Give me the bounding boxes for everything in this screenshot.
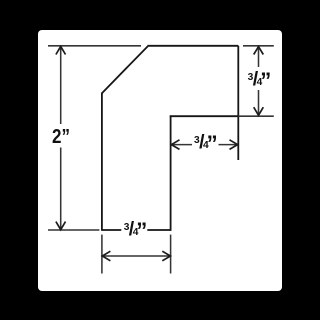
- middle 3/4 dimension arrowhead left: [171, 140, 179, 150]
- middle 3/4 dimension line right segment: [219, 144, 238, 146]
- profile right edge: [237, 46, 239, 160]
- middle 3/4 dimension line left segment: [172, 144, 192, 146]
- middle 3/4 dimension arrowhead right: [230, 140, 238, 150]
- extension line below inner bottom corner: [170, 235, 172, 274]
- profile bottom edge left part: [102, 229, 121, 231]
- profile inner horizontal edge: [170, 115, 239, 117]
- 2 inch dimension arrowhead up: [56, 46, 66, 54]
- white drawing page: [38, 30, 282, 291]
- 2 inch dimension line lower segment: [60, 148, 62, 230]
- extension line right of inner horizontal edge: [238, 115, 273, 117]
- extension line top-right (for right 3/4 inch dimension): [243, 45, 274, 47]
- right 3/4 dimension line lower segment: [258, 90, 260, 115]
- right 3/4 dimension line upper segment: [258, 47, 260, 67]
- right 3/4 dimension arrowhead down: [254, 107, 264, 115]
- bottom 3/4 dimension arrowhead right: [162, 251, 170, 261]
- bottom 3/4 dimension arrowhead left: [102, 251, 110, 261]
- extension line bottom-left (for 2 inch dimension): [48, 229, 99, 231]
- profile bottom edge right part: [147, 229, 171, 231]
- right 3/4 dimension arrowhead up: [254, 47, 264, 55]
- label 3/4 inch right: [248, 72, 272, 88]
- label 3/4 inch bottom: [124, 222, 148, 238]
- extension line top-left (for 2 inch dimension): [48, 45, 141, 47]
- profile top edge: [147, 45, 238, 47]
- extension line below bottom-left corner: [101, 235, 103, 274]
- bottom 3/4 dimension line: [103, 255, 171, 257]
- label 2 inch: [52, 127, 70, 147]
- profile inner vertical edge: [170, 115, 172, 230]
- 2 inch dimension line upper segment: [60, 47, 62, 124]
- profile chamfer edge: [102, 46, 148, 93]
- 2 inch dimension arrowhead down: [56, 222, 66, 230]
- profile left edge: [101, 93, 103, 231]
- label 3/4 inch middle: [194, 135, 218, 151]
